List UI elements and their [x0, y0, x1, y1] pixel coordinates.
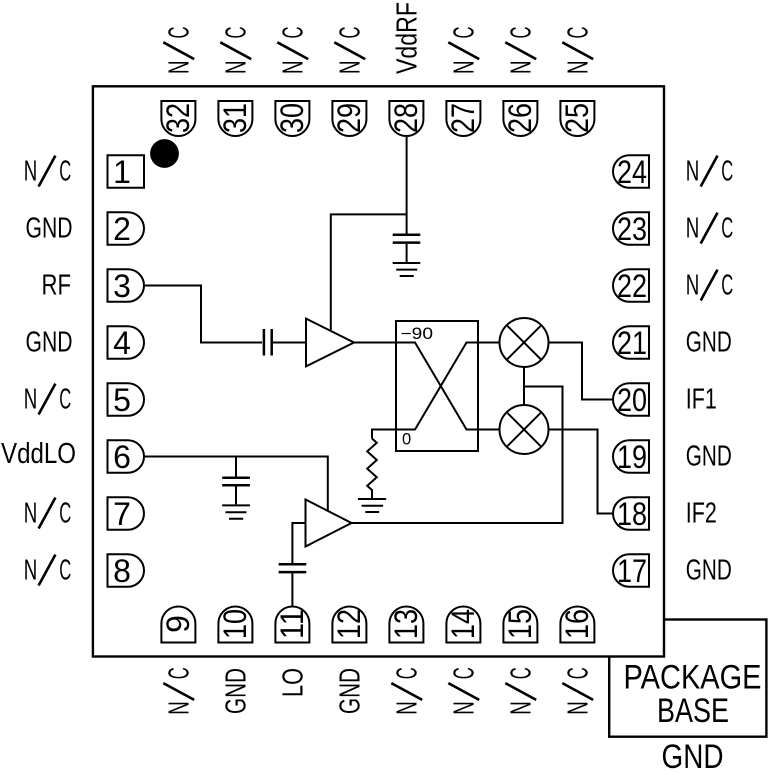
ground under VddLO cap — [222, 505, 250, 518]
svg-text:26: 26 — [502, 103, 538, 133]
svg-text:GND: GND — [220, 668, 252, 714]
pin 32 label N/C — [163, 27, 195, 75]
svg-text:24: 24 — [617, 154, 647, 190]
svg-text:GND: GND — [334, 668, 366, 714]
pin 1 label N/C — [24, 156, 71, 188]
resistor termination — [367, 439, 377, 500]
pin 5 label N/C — [24, 384, 71, 416]
pin 26 — [502, 101, 538, 136]
pin 23 label N/C — [686, 213, 734, 245]
svg-text:GND: GND — [686, 555, 732, 587]
svg-text:GND: GND — [686, 441, 732, 473]
pin 8 label N/C — [24, 555, 71, 587]
pin 10 — [217, 607, 253, 643]
pin 24 — [613, 154, 649, 190]
pin 22 — [613, 268, 649, 304]
svg-text:32: 32 — [160, 103, 196, 133]
pin 9 label N/C — [163, 667, 195, 715]
svg-text:LO: LO — [277, 668, 309, 697]
mixer M1 (top) — [500, 318, 549, 367]
svg-text:17: 17 — [617, 553, 647, 589]
svg-text:1: 1 — [113, 154, 131, 190]
svg-text:14: 14 — [445, 609, 481, 639]
pin 32 — [160, 101, 196, 136]
svg-text:6: 6 — [113, 439, 131, 475]
wire hybrid to bottom mixer — [478, 429, 500, 431]
pin 26 label N/C — [505, 27, 537, 75]
pin 27 label N/C — [448, 27, 480, 75]
pin 27 — [445, 101, 481, 136]
svg-text:18: 18 — [617, 496, 647, 532]
wire VddLO pin6 to LO amp — [144, 457, 328, 512]
wire hybrid to top mixer — [478, 342, 500, 344]
wire IF2 bottom mixer to pin 18 — [548, 430, 614, 514]
svg-text:IF2: IF2 — [686, 498, 717, 530]
svg-text:15: 15 — [502, 609, 538, 639]
pin-1 indicator dot — [150, 139, 179, 168]
svg-text:16: 16 — [559, 609, 595, 639]
pin 22 label N/C — [686, 270, 734, 302]
pin 30 label N/C — [277, 27, 309, 75]
IC package body — [93, 86, 664, 656]
svg-text:12: 12 — [331, 609, 367, 639]
svg-text:RF: RF — [42, 270, 72, 302]
pin 14 label N/C — [448, 667, 480, 715]
pin 23 — [613, 211, 649, 247]
svg-text:GND: GND — [26, 213, 73, 245]
svg-text:25: 25 — [559, 103, 595, 133]
pin 25 — [559, 101, 595, 136]
pin 25 label N/C — [562, 27, 594, 75]
pin 3 — [108, 268, 144, 304]
svg-text:29: 29 — [331, 103, 367, 133]
svg-text:2: 2 — [113, 211, 131, 247]
svg-text:PACKAGE: PACKAGE — [624, 659, 762, 697]
pin 24 label N/C — [686, 156, 734, 188]
svg-text:GND: GND — [686, 327, 732, 359]
svg-text:BASE: BASE — [657, 692, 729, 730]
svg-text:VddLO: VddLO — [1, 438, 76, 470]
svg-text:10: 10 — [217, 609, 253, 639]
pin 15 label N/C — [505, 667, 537, 715]
op-amp RF amplifier — [306, 319, 354, 367]
svg-text:VddRF: VddRF — [391, 2, 423, 74]
pin 15 — [502, 607, 538, 643]
svg-text:13: 13 — [388, 609, 424, 639]
op-amp LO amplifier — [306, 500, 352, 547]
pin 17 — [613, 553, 649, 589]
svg-text:GND: GND — [26, 327, 73, 359]
pin 21 — [613, 325, 649, 361]
pin 16 — [559, 607, 595, 643]
wire VddRF pin28 down — [406, 137, 408, 234]
wire VddRF branch to RF amp — [331, 214, 407, 330]
pin 29 — [331, 101, 367, 136]
pin 1 — [108, 154, 145, 190]
svg-text:22: 22 — [617, 268, 647, 304]
capacitor C-LO series coupling — [279, 564, 307, 572]
svg-text:27: 27 — [445, 103, 481, 133]
pin 20 — [613, 382, 649, 418]
svg-text:5: 5 — [113, 382, 131, 418]
pin 16 label N/C — [562, 667, 594, 715]
pin 19 — [613, 439, 649, 475]
svg-text:19: 19 — [617, 439, 647, 475]
pin 13 label N/C — [391, 667, 423, 715]
wire RF amp out to hybrid — [354, 342, 396, 344]
wire cap to RF amp — [273, 342, 306, 344]
svg-text:IF1: IF1 — [686, 384, 717, 416]
svg-text:21: 21 — [617, 325, 647, 361]
pin 30 — [274, 101, 310, 136]
svg-text:20: 20 — [617, 382, 647, 418]
pin 6 — [108, 439, 144, 475]
svg-text:30: 30 — [274, 103, 310, 133]
ground under resistor — [358, 499, 386, 512]
wire hybrid 0-port to resistor — [372, 430, 396, 439]
pin 13 — [388, 607, 424, 643]
pin 7 — [108, 496, 144, 532]
pin 11 — [274, 607, 310, 643]
pin 29 label N/C — [334, 27, 366, 75]
svg-text:7: 7 — [113, 496, 131, 532]
capacitor C-VddLO bypass — [235, 457, 237, 477]
svg-text:11: 11 — [274, 609, 310, 639]
svg-text:23: 23 — [617, 211, 647, 247]
svg-text:3: 3 — [113, 268, 131, 304]
pin 18 — [613, 496, 649, 532]
svg-text:31: 31 — [217, 103, 253, 133]
pin 5 — [108, 382, 144, 418]
mixer M2 (bottom) — [500, 405, 549, 454]
pin 2 — [108, 211, 144, 247]
pin 28 — [388, 101, 424, 136]
pin 14 — [445, 607, 481, 643]
wire LO between mixers — [523, 367, 525, 405]
svg-text:28: 28 — [388, 103, 424, 133]
pin 9 — [160, 607, 196, 643]
ground under VddRF cap — [393, 263, 421, 276]
wire LO pin11 up to coupling cap — [291, 573, 293, 606]
pin 7 label N/C — [24, 498, 71, 530]
svg-text:8: 8 — [113, 553, 131, 589]
90-degree hybrid coupler box — [396, 321, 478, 451]
capacitor C-VddRF bypass — [393, 235, 421, 243]
wire RF input pin3 to coupling cap — [144, 286, 262, 343]
pin 31 label N/C — [220, 27, 252, 75]
wire cap to LO amp input — [292, 523, 305, 563]
svg-text:4: 4 — [113, 325, 131, 361]
PACKAGE BASE box — [609, 620, 766, 737]
svg-text:0: 0 — [402, 431, 411, 449]
capacitor C-RF series coupling — [264, 329, 272, 356]
wire IF1 top mixer to pin 20 — [548, 343, 614, 400]
pin 31 — [217, 101, 253, 136]
wire LO feed from amp — [352, 387, 563, 524]
svg-text:9: 9 — [160, 615, 196, 633]
svg-text:GND: GND — [662, 738, 724, 772]
pin 12 — [331, 607, 367, 643]
pin 8 — [108, 553, 144, 589]
pin 4 — [108, 325, 144, 361]
svg-text:−90: −90 — [401, 325, 434, 343]
